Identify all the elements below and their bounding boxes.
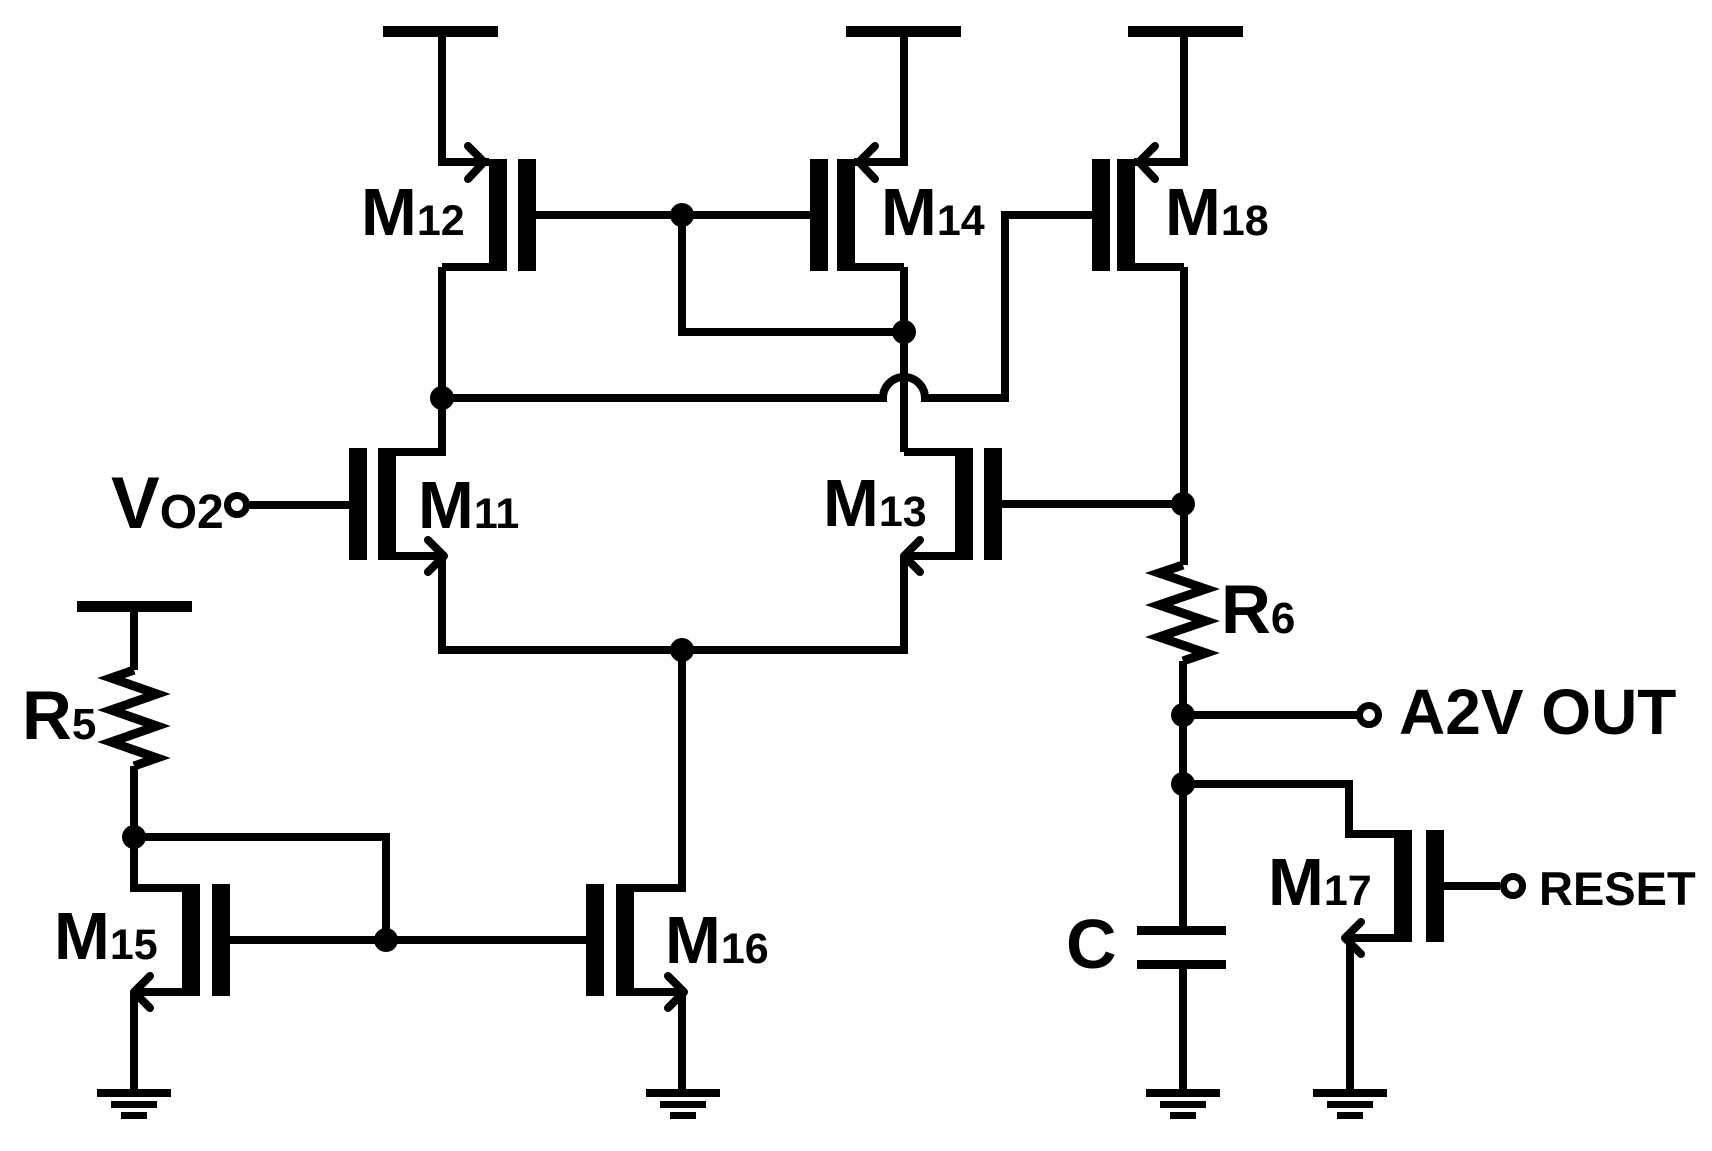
- transistor M18: [1092, 146, 1269, 271]
- capacitor C: [1066, 905, 1226, 983]
- node gate bus M15/M16: [374, 928, 398, 952]
- power rail VDD (M12): [383, 26, 498, 37]
- transistor M15: [54, 884, 230, 1008]
- terminal RESET: [1444, 862, 1696, 915]
- wire M12 drain to M18 gate (with hop): [442, 215, 1092, 398]
- wire M15 drain: [134, 837, 182, 888]
- power rail VDD (M14): [846, 26, 961, 37]
- wire tail node to M16 drain: [634, 650, 682, 888]
- transistor M12: [361, 146, 536, 271]
- terminal A2V OUT: [1183, 676, 1676, 748]
- ground M17: [1313, 1089, 1387, 1119]
- wire M17 node down to capacitor: [1179, 784, 1187, 926]
- svg-text:C: C: [1066, 905, 1117, 983]
- wire M16 source to ground: [678, 992, 686, 1090]
- ground C: [1146, 1089, 1220, 1119]
- wire M13 gate to output branch: [1002, 500, 1183, 508]
- transistor M14: [810, 146, 985, 271]
- wire M14 drain down: [900, 267, 908, 332]
- wire R5 to node: [130, 766, 138, 837]
- transistor M16: [586, 884, 769, 1008]
- power rail (R5): [77, 601, 192, 612]
- wire VDD to M18 source: [1134, 36, 1184, 162]
- wire diode connection to M14 drain: [682, 215, 904, 332]
- svg-text:RESET: RESET: [1539, 862, 1696, 915]
- transistor M13: [823, 448, 1002, 572]
- wire M18 drain down: [1180, 267, 1188, 565]
- node tail: [670, 638, 694, 662]
- wire M17 source to ground: [1346, 938, 1354, 1090]
- node M18 drain / M13 gate: [1171, 492, 1195, 516]
- resistor R6: [1159, 565, 1295, 661]
- wire rail to R5: [130, 611, 138, 670]
- wire M15 source to ground: [130, 992, 138, 1090]
- node M14 drain: [892, 320, 916, 344]
- transistor M11: [349, 448, 519, 572]
- wire R6 to output node: [1179, 661, 1187, 715]
- wire M13 source to tail node: [682, 556, 904, 650]
- ground M15: [97, 1089, 171, 1119]
- node R5 / M15 drain: [122, 825, 146, 849]
- terminal VO2: [111, 463, 349, 544]
- wire capacitor to ground: [1179, 969, 1187, 1090]
- node A2V OUT: [1171, 703, 1195, 727]
- wire M12 drain down: [438, 267, 446, 398]
- svg-text:A2V OUT: A2V OUT: [1399, 676, 1676, 748]
- node M12/M11 drain: [430, 386, 454, 410]
- resistor R5: [22, 670, 157, 766]
- wire gate bus M15-M16: [230, 936, 586, 944]
- wire VDD to M14 source: [854, 36, 904, 162]
- wire output node down: [1179, 715, 1187, 784]
- wire node down to M11 drain: [395, 398, 442, 452]
- wire node to M15/M16 gates: [134, 837, 386, 940]
- wire VDD to M12 source: [442, 36, 489, 162]
- power rail VDD (M18): [1128, 26, 1243, 37]
- node gate bus: [670, 203, 694, 227]
- wire M14 drain to M13 source: [900, 332, 908, 452]
- wire gate bus M12-M14: [536, 211, 810, 219]
- wire node to M17 drain: [1183, 784, 1394, 834]
- transistor M17: [1268, 830, 1444, 954]
- wire M11 source to tail node: [442, 556, 682, 650]
- ground M16: [646, 1089, 720, 1119]
- node M17 branch: [1171, 772, 1195, 796]
